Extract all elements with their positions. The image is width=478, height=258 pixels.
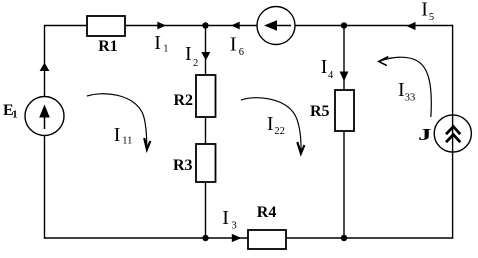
loop current arrow I22 head	[297, 142, 304, 154]
wire right rail through J	[452, 25, 454, 239]
label I11	[114, 124, 133, 146]
wire top rail middle segment	[125, 25, 257, 27]
label E1	[3, 102, 18, 121]
wire left rail upper segment	[44, 25, 46, 97]
junction dot top middle node	[202, 22, 208, 28]
loop current arrow I11 head	[144, 138, 150, 150]
voltage source E1 circle	[25, 97, 64, 136]
svg-text:5: 5	[429, 12, 434, 23]
current arrow I4 (down)	[340, 72, 349, 82]
wire top rail left segment	[45, 25, 88, 27]
label I2	[185, 43, 198, 69]
svg-text:I: I	[421, 0, 428, 21]
current source J circle	[434, 115, 471, 152]
loop current arrow I33 arc	[379, 57, 431, 117]
wire bottom rail left segment	[44, 237, 248, 239]
svg-text:22: 22	[274, 126, 285, 137]
svg-text:I: I	[398, 79, 405, 101]
svg-text:I: I	[154, 32, 161, 54]
svg-text:11: 11	[122, 135, 132, 146]
loop current arrow I11 arc	[87, 94, 147, 149]
wire top rail right segment	[295, 25, 453, 27]
label I22	[267, 113, 285, 137]
svg-text:1: 1	[163, 44, 168, 55]
loop current arrow I22 arc	[241, 98, 301, 151]
resistor R5	[335, 90, 354, 131]
label I33	[398, 79, 415, 104]
current arrow I2 (down)	[201, 52, 210, 61]
wire middle branch bottom segment	[205, 182, 207, 238]
svg-text:4: 4	[328, 70, 334, 81]
resistor R3	[196, 144, 216, 182]
svg-text:J: J	[418, 125, 432, 144]
svg-text:I: I	[230, 34, 237, 56]
svg-text:6: 6	[239, 47, 244, 58]
wire middle branch top segment	[205, 26, 207, 76]
current arrow I1 (right)	[157, 22, 166, 30]
wire middle branch between R2 and R3	[205, 117, 207, 144]
label I4	[321, 56, 334, 81]
current arrow I5 (left)	[407, 22, 416, 30]
svg-text:I: I	[185, 43, 192, 65]
svg-text:3: 3	[232, 221, 237, 232]
svg-text:R1: R1	[98, 38, 118, 55]
junction dot bottom right-middle node	[341, 235, 347, 241]
svg-text:2: 2	[193, 58, 198, 69]
svg-text:1: 1	[12, 109, 18, 121]
label I3	[222, 207, 236, 232]
svg-text:I: I	[114, 124, 121, 146]
wire left rail lower segment	[44, 135, 46, 239]
current source (top) internal arrow	[264, 20, 291, 31]
svg-text:I: I	[321, 56, 328, 78]
svg-text:R5: R5	[310, 103, 330, 120]
loop current arrow I33 head	[379, 57, 389, 66]
label I6	[230, 34, 244, 59]
current arrow I6 (left)	[231, 22, 240, 30]
current source J chevrons	[446, 127, 460, 143]
resistor R2	[196, 75, 216, 117]
junction dot top right-middle node	[341, 22, 347, 28]
resistor R4	[248, 230, 286, 249]
voltage source E1 internal arrow	[39, 105, 50, 130]
resistor R1	[87, 16, 125, 36]
wire right-middle branch top segment	[343, 26, 345, 91]
svg-text:I: I	[267, 113, 274, 135]
current arrow on left rail above E1 (up)	[40, 63, 50, 72]
svg-text:R2: R2	[174, 92, 194, 109]
svg-text:R3: R3	[173, 157, 193, 174]
label I1	[154, 32, 168, 55]
label I5	[421, 0, 434, 23]
wire bottom rail right segment	[286, 237, 453, 239]
svg-text:R4: R4	[257, 204, 277, 221]
svg-text:I: I	[222, 207, 229, 229]
current arrow I3 (right)	[232, 234, 242, 242]
current source (top) circle	[257, 7, 295, 45]
svg-text:33: 33	[405, 93, 416, 104]
junction dot bottom middle node	[202, 235, 208, 241]
wire right-middle branch bottom segment	[343, 131, 345, 238]
